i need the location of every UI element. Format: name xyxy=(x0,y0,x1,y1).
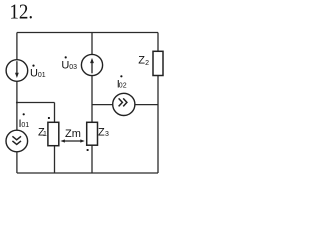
svg-text:03: 03 xyxy=(69,64,77,71)
svg-text:U: U xyxy=(30,68,38,80)
svg-text:U: U xyxy=(61,60,69,72)
svg-text:2: 2 xyxy=(145,60,149,67)
svg-text:Z: Z xyxy=(98,126,105,138)
svg-text:Zm: Zm xyxy=(65,128,81,140)
svg-text:01: 01 xyxy=(21,122,29,129)
svg-text:3: 3 xyxy=(105,131,109,138)
svg-text:12.: 12. xyxy=(9,0,33,24)
svg-text:1: 1 xyxy=(43,131,47,138)
svg-text:02: 02 xyxy=(119,83,127,90)
svg-text:01: 01 xyxy=(38,72,46,79)
